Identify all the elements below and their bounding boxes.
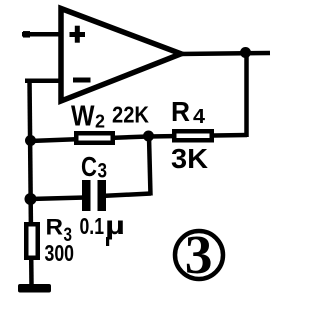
potentiometer W2 — [76, 133, 113, 143]
label R3 — [46, 215, 73, 247]
svg-text:3: 3 — [185, 225, 213, 286]
wire capacitor left — [30, 198, 85, 200]
label W2 — [71, 101, 105, 133]
svg-text:R: R — [46, 215, 64, 240]
wire node B to R4 to right rail — [148, 135, 247, 137]
svg-text:µ: µ — [105, 210, 125, 240]
wire feedback (node A to W2 to node B) — [30, 137, 148, 142]
node A junction dot — [25, 135, 36, 146]
wire capacitor right to riser — [101, 194, 151, 197]
svg-text:22K: 22K — [112, 102, 149, 128]
wire riser C3 to node B — [149, 137, 151, 196]
resistor R4 — [174, 131, 212, 140]
wire noninverting input — [22, 32, 63, 37]
wire left rail (inverting input to ground) — [30, 79, 32, 287]
svg-text:300: 300 — [45, 240, 75, 266]
op-amp — [61, 9, 181, 102]
figure number 3 — [175, 225, 223, 286]
node output junction dot — [240, 47, 251, 58]
svg-text:0.1: 0.1 — [80, 213, 105, 239]
resistor R3 — [26, 224, 38, 258]
wire output — [179, 53, 270, 54]
wire inverting input — [25, 79, 67, 84]
value 0.1u — [80, 210, 126, 246]
node B junction dot (W2/R4/C3) — [143, 131, 154, 142]
node C junction dot (C3 tap) — [25, 193, 37, 205]
svg-text:3K: 3K — [171, 143, 208, 174]
label C3 — [81, 151, 107, 183]
svg-text:3: 3 — [98, 160, 108, 183]
svg-text:4: 4 — [193, 105, 206, 128]
svg-text:2: 2 — [95, 111, 105, 132]
wire right rail (output down to R4) — [244, 53, 249, 137]
capacitor C3 — [82, 180, 106, 211]
svg-text:R: R — [171, 96, 190, 127]
svg-text:C: C — [81, 151, 97, 182]
ground — [18, 284, 51, 293]
svg-text:W: W — [71, 101, 95, 133]
label R4 — [171, 96, 206, 128]
